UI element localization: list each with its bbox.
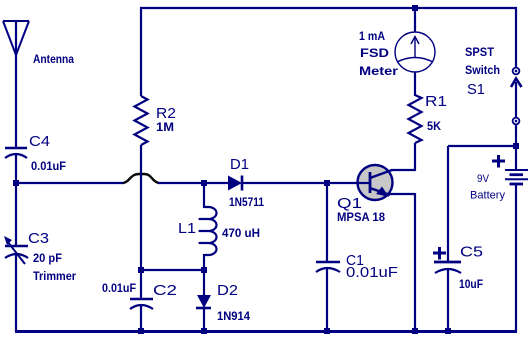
wire main horizontal mid segment xyxy=(158,182,229,184)
svg-text:D1: D1 xyxy=(230,157,249,173)
wire R2 lower branch xyxy=(140,145,142,270)
svg-text:S1: S1 xyxy=(467,82,485,98)
svg-text:D2: D2 xyxy=(217,283,238,299)
node junction L1/D2 xyxy=(201,267,207,273)
svg-text:C3: C3 xyxy=(28,231,49,247)
meter M1 xyxy=(359,8,435,96)
capacitor C2 xyxy=(102,270,177,332)
diode D1 xyxy=(228,157,264,209)
capacitor C4 xyxy=(5,134,66,173)
svg-text:1M: 1M xyxy=(156,120,174,134)
capacitor C5 xyxy=(433,146,483,332)
node junction left rail / main wire xyxy=(13,180,19,186)
svg-text:20 pF: 20 pF xyxy=(33,251,62,265)
node junction emitter/bottom rail xyxy=(412,328,418,334)
diode D2 xyxy=(196,270,250,332)
svg-text:0.01uF: 0.01uF xyxy=(102,281,136,295)
svg-text:C2: C2 xyxy=(153,283,177,299)
svg-text:C5: C5 xyxy=(460,245,483,261)
svg-text:Battery: Battery xyxy=(470,190,505,202)
wire C5 link xyxy=(448,145,516,147)
wire switch to battery node xyxy=(515,124,517,147)
node junction D2/bottom rail xyxy=(201,328,207,334)
node junction C5/bottom rail xyxy=(445,328,451,334)
wire right rail upper (to switch) xyxy=(515,7,517,68)
svg-text:Antenna: Antenna xyxy=(33,52,74,66)
svg-text:0.01uF: 0.01uF xyxy=(346,265,398,281)
svg-text:Switch: Switch xyxy=(465,63,500,77)
resistor R2 xyxy=(135,7,177,145)
inductor L1 xyxy=(178,183,260,271)
svg-text:MPSA 18: MPSA 18 xyxy=(337,210,385,224)
battery B1 xyxy=(470,146,528,332)
svg-text:L1: L1 xyxy=(178,221,196,237)
wire emitter down xyxy=(390,193,415,332)
wire top rail xyxy=(140,7,517,9)
svg-text:1 mA: 1 mA xyxy=(359,29,385,43)
node junction main wire / C1 branch xyxy=(324,180,330,186)
node junction C1/bottom rail xyxy=(324,328,330,334)
svg-text:R1: R1 xyxy=(425,94,447,110)
antenna xyxy=(3,21,74,148)
svg-text:1N5711: 1N5711 xyxy=(229,195,264,209)
svg-text:FSD: FSD xyxy=(360,46,389,60)
svg-text:SPST: SPST xyxy=(465,45,495,59)
svg-text:9V: 9V xyxy=(477,173,490,185)
node junction meter/top rail xyxy=(412,5,418,11)
node junction switch/C5/battery xyxy=(513,143,519,149)
wire C2 to L1 link xyxy=(141,269,204,271)
switch S1 xyxy=(465,45,522,124)
svg-text:Trimmer: Trimmer xyxy=(33,269,76,283)
wire main horizontal right segment xyxy=(242,182,358,184)
wire bottom rail xyxy=(15,330,517,333)
wire collector to R1 xyxy=(391,143,415,171)
svg-text:470 uH: 470 uH xyxy=(222,226,260,240)
svg-text:1N914: 1N914 xyxy=(217,309,250,323)
wire left rail lower xyxy=(15,254,17,332)
svg-text:C4: C4 xyxy=(29,134,50,150)
wire main horizontal left segment xyxy=(16,182,124,184)
wire hop over R2 branch xyxy=(123,174,159,183)
svg-text:5K: 5K xyxy=(427,119,441,133)
node junction R2/C2 xyxy=(138,267,144,273)
capacitor C3 trimmer xyxy=(4,231,76,283)
svg-text:Meter: Meter xyxy=(359,64,398,78)
capacitor C1 xyxy=(316,183,398,332)
node junction main wire / L1 branch xyxy=(201,180,207,186)
wire left rail mid xyxy=(15,155,17,246)
svg-text:10uF: 10uF xyxy=(459,277,483,291)
transistor Q1 xyxy=(337,165,393,224)
resistor R1 xyxy=(409,94,448,143)
node junction C2/bottom rail xyxy=(138,328,144,334)
svg-text:0.01uF: 0.01uF xyxy=(31,159,66,173)
